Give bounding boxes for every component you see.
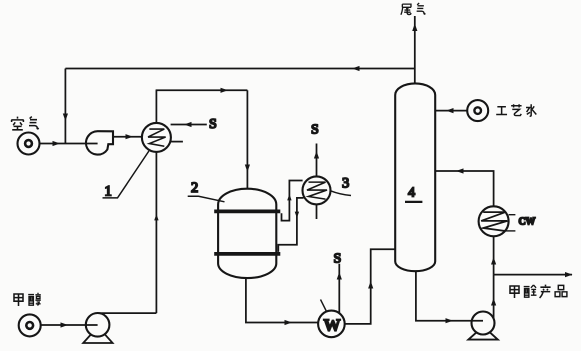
svg-text:S: S xyxy=(209,117,217,132)
leader line label 1 xyxy=(103,151,149,198)
arrow methanol right xyxy=(61,322,69,327)
arrow steam up exchanger3 xyxy=(314,151,319,159)
svg-text:S: S xyxy=(311,123,319,138)
arrow methanol up to vaporizer xyxy=(154,214,158,220)
wire vaporizer top riser xyxy=(155,90,157,123)
arrow recycle down xyxy=(63,114,68,122)
absorber column 4 xyxy=(395,83,435,271)
reactor bed plate upper xyxy=(214,209,280,213)
arrow return into column xyxy=(456,168,464,173)
exchanger 3 circle xyxy=(303,176,331,204)
wire recycle vertical xyxy=(64,69,66,144)
product pump P2 xyxy=(468,312,497,340)
label 尾气 (tail gas) xyxy=(401,3,426,15)
arrow P2 discharge up xyxy=(491,298,496,306)
wire blower inlet stub xyxy=(86,143,98,145)
reactor bed plate lower xyxy=(214,252,280,256)
arrow path A up xyxy=(287,194,291,200)
wire absorbent return line xyxy=(435,171,493,206)
air source circle xyxy=(18,133,40,155)
arrow bottoms right xyxy=(446,318,454,323)
wire air inlet xyxy=(40,143,86,145)
label 工艺水 (process water) xyxy=(496,104,536,116)
arrow transfer right xyxy=(221,88,229,93)
svg-text:W: W xyxy=(324,316,341,335)
wire methanol inlet xyxy=(41,324,98,326)
wire pump discharge horizontal xyxy=(98,312,157,314)
process water circle xyxy=(467,100,488,121)
wire recycle horizontal xyxy=(65,68,414,70)
blower B1 xyxy=(86,131,113,154)
arrow blower outlet xyxy=(126,134,134,139)
arrow steam into vaporizer xyxy=(184,122,192,127)
wire process water line xyxy=(435,110,467,112)
waste heat boiler W xyxy=(318,311,345,338)
reactor 2 vessel xyxy=(218,189,276,278)
wire steam line vaporizer xyxy=(171,124,207,126)
wire exchanger3 bottom stub xyxy=(316,204,318,219)
svg-text:1: 1 xyxy=(105,184,112,200)
wire reactor inlet drop xyxy=(246,90,248,188)
svg-text:4: 4 xyxy=(408,186,415,201)
wire W steam riser xyxy=(338,264,340,313)
arrow W outlet up xyxy=(368,281,373,289)
arrow product right xyxy=(565,272,573,277)
cooling water tick lower xyxy=(505,230,516,232)
wire condensate stub vaporizer xyxy=(171,141,183,143)
arrow W steam up xyxy=(337,272,342,280)
wire exchanger3 steam riser xyxy=(316,144,318,177)
cooler CW circle xyxy=(479,206,509,236)
svg-text:S: S xyxy=(334,252,342,267)
wire cooler to product junction xyxy=(493,236,495,274)
arrow air inlet xyxy=(53,141,61,146)
methanol source circle xyxy=(19,314,41,336)
arrow tail gas up xyxy=(412,24,417,32)
leader line label 2 xyxy=(188,196,225,202)
arrow recycle left xyxy=(352,66,360,71)
wire product line xyxy=(494,274,572,276)
underline label 4 xyxy=(405,201,422,203)
svg-text:2: 2 xyxy=(191,180,198,196)
leader line label 3 xyxy=(331,191,352,196)
wire vaporizer bottom drop xyxy=(155,152,157,313)
wire W outlet to column xyxy=(345,249,396,324)
wire reactor to exchanger3 (path A) xyxy=(282,181,303,221)
svg-text:3: 3 xyxy=(342,176,349,192)
wire transfer to reactor xyxy=(156,89,248,91)
label 甲醛产品 (formaldehyde product) xyxy=(510,285,567,298)
vaporizer 1 circle xyxy=(142,123,171,152)
label 空气 (air) xyxy=(11,117,39,130)
methanol pump P1 xyxy=(83,313,112,343)
label 甲醇 (methanol) xyxy=(14,293,41,306)
arrow reactor inlet down xyxy=(245,165,250,173)
arrow process water left xyxy=(446,108,454,113)
wire blower outlet xyxy=(113,136,142,138)
node air-recycle junction xyxy=(64,143,66,144)
vaporizer 1 coil xyxy=(148,129,166,146)
cooler CW coil xyxy=(481,212,507,231)
wire tail gas riser xyxy=(414,16,416,84)
cooling water tick upper xyxy=(509,214,516,216)
wire column bottoms to pump xyxy=(416,271,483,321)
exchanger 3 coil xyxy=(307,182,327,199)
wire exchanger3 return (path B) xyxy=(278,198,303,252)
wire pump P2 discharge xyxy=(493,275,495,319)
arrow path B down xyxy=(295,212,299,218)
arrow to waste heat boiler xyxy=(285,320,293,325)
svg-text:CW: CW xyxy=(519,217,536,228)
tick mark on W xyxy=(321,300,327,312)
wire reactor bottom outlet xyxy=(246,278,318,322)
arrow up into cooler xyxy=(491,257,496,265)
